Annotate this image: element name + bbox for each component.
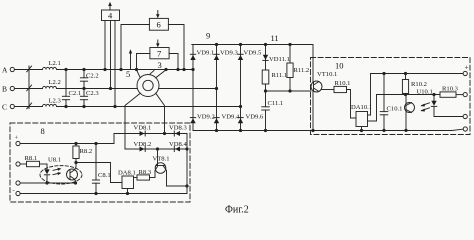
wire R10.1 to DA10.1 <box>347 90 357 119</box>
svg-text:A: A <box>2 66 8 75</box>
wire bridge top rail <box>192 44 313 46</box>
node A terminal <box>2 66 14 75</box>
svg-text:DA10.1: DA10.1 <box>351 104 372 111</box>
capacitor C2.2 <box>80 68 98 89</box>
svg-text:8: 8 <box>41 126 45 136</box>
wire node to VT10.1 base <box>266 90 312 92</box>
svg-text:C8.1: C8.1 <box>98 172 111 179</box>
svg-text:C2.1: C2.1 <box>69 90 82 97</box>
wire block4 to phase C <box>114 21 116 108</box>
wire R11.1 bottom node <box>264 84 266 107</box>
capacitor C2.1 <box>62 68 81 107</box>
input terminal 8d <box>16 191 187 195</box>
wire motor stub bottom-left <box>125 93 140 133</box>
wire mid node rail <box>377 93 441 95</box>
svg-text:R11.1: R11.1 <box>272 72 288 79</box>
svg-text:L2.2: L2.2 <box>49 79 61 86</box>
svg-text:U8.1: U8.1 <box>48 157 61 164</box>
diode VD9.5 <box>238 50 262 61</box>
svg-text:+: + <box>465 63 469 72</box>
input terminal 8b <box>16 162 27 166</box>
capacitor C10.1 <box>380 72 402 131</box>
wire DA10.1 bottom pin <box>360 127 362 132</box>
diode VD9.6 <box>238 114 264 124</box>
diode VD8.3 <box>169 125 187 137</box>
wire bridge leg 1 <box>192 45 194 131</box>
capacitor C2.3 <box>80 89 99 108</box>
diode VD9.2 <box>190 114 214 124</box>
output terminal 4 <box>463 127 467 131</box>
svg-text:5: 5 <box>126 69 130 79</box>
resistor R8.3 <box>134 169 155 180</box>
svg-text:VD9.1: VD9.1 <box>197 50 215 57</box>
svg-text:U10.1: U10.1 <box>417 89 433 96</box>
wire phase B input <box>14 88 42 90</box>
svg-text:9: 9 <box>206 31 210 41</box>
svg-text:R10.2: R10.2 <box>411 81 427 88</box>
wire block6 right to phase A <box>168 25 185 71</box>
svg-text:VD8.1: VD8.1 <box>134 125 152 132</box>
svg-text:L2.1: L2.1 <box>49 60 61 67</box>
wire phase C main <box>57 106 241 108</box>
capacitor C11.1 <box>262 100 284 132</box>
light arrows U8.1 <box>53 168 61 175</box>
wire bridge leg 3 <box>239 43 241 131</box>
svg-text:VD9.3: VD9.3 <box>220 50 238 57</box>
wire phototransistor collector <box>74 161 77 170</box>
wire VD8 top <box>125 132 187 134</box>
wire block7 left to phase A <box>135 54 150 71</box>
svg-text:R8.2: R8.2 <box>80 148 93 155</box>
output terminal 3 <box>463 114 467 118</box>
wire motor stub bottom-right <box>156 93 165 133</box>
resistor R8.2 <box>73 142 92 162</box>
LED U10.1 <box>431 95 436 117</box>
wire plus rail <box>371 73 464 75</box>
wire bottom rail <box>193 129 463 130</box>
svg-text:C10.1: C10.1 <box>387 106 403 113</box>
svg-text:Фиг.2: Фиг.2 <box>225 205 249 216</box>
sensor arrow node 5 <box>126 49 132 79</box>
resistor R11.2 <box>287 43 309 92</box>
optocoupler U10.1 phototransistor <box>405 89 433 132</box>
svg-text:11: 11 <box>271 33 279 43</box>
svg-text:C2.2: C2.2 <box>86 73 99 80</box>
svg-text:VD9.2: VD9.2 <box>197 114 215 121</box>
wire motor stub top-left <box>137 70 141 78</box>
wire riser to VD8 network <box>114 134 125 144</box>
svg-text:10: 10 <box>335 61 344 71</box>
resistor R10.2 <box>402 72 427 94</box>
wire LED cathode to terminal <box>434 116 463 118</box>
output terminal 2 <box>463 93 467 97</box>
IC DA10.1 <box>351 104 372 127</box>
svg-text:+: + <box>15 135 19 142</box>
junction dots bottom rail <box>312 129 314 131</box>
svg-text:VD8.4: VD8.4 <box>169 141 187 148</box>
inductor L2.2 <box>43 79 61 89</box>
diode VD8.1 <box>134 125 152 137</box>
wire phase C input <box>14 106 42 108</box>
arrow out of block 4 <box>108 2 112 10</box>
diode VD8.4 <box>169 141 187 152</box>
wire block4 to phase A <box>104 21 106 71</box>
block 4 <box>102 10 120 21</box>
svg-text:4: 4 <box>108 11 113 21</box>
svg-text:6: 6 <box>157 20 161 30</box>
wire VD8 left connector <box>124 134 126 150</box>
dashed box 10 <box>311 58 471 135</box>
inductor L2.3 <box>43 98 62 107</box>
block 6 <box>149 18 168 30</box>
node B terminal <box>2 85 14 94</box>
diode VD9.3 <box>214 50 239 61</box>
input terminal 8c <box>16 181 76 185</box>
wire VT10.1 emitter to rail <box>312 92 314 132</box>
capacitor C8.1 <box>92 142 110 194</box>
wire motor stub top-right <box>156 68 167 77</box>
optocoupler U8.1 dashed outline <box>40 166 82 184</box>
wire phase B motor to bridge <box>159 88 217 90</box>
input terminal 8a <box>16 141 114 145</box>
wire block6 left to phase A <box>120 25 150 71</box>
arrow into block 6 <box>156 11 160 19</box>
inductor L2.1 <box>43 60 61 70</box>
block 7 <box>150 48 169 59</box>
resistor R10.3 <box>440 86 463 98</box>
wire VD8 bottom <box>125 148 188 150</box>
wire phase A input <box>14 69 42 71</box>
diode VD11.1 <box>263 43 290 70</box>
svg-text:L2.3: L2.3 <box>49 98 62 105</box>
svg-text:VT8.1: VT8.1 <box>153 156 170 163</box>
svg-text:3: 3 <box>158 60 162 70</box>
svg-text:7: 7 <box>157 49 161 59</box>
wire phase B to motor <box>57 88 138 90</box>
diode VD9.4 <box>214 114 240 124</box>
svg-text:VD9.5: VD9.5 <box>244 50 262 57</box>
transistor VT8.1 <box>153 148 189 187</box>
wire VT10.1 to R10.1 <box>321 89 334 91</box>
resistor R11.1 <box>262 70 287 84</box>
transistor VT10.1 <box>311 71 337 92</box>
switch bar 3-pole <box>27 66 32 109</box>
wire phase A main <box>57 69 194 71</box>
wire collector node to DA8.1 <box>76 163 122 183</box>
output terminal plus <box>463 63 469 76</box>
svg-text:C: C <box>2 103 7 112</box>
svg-text:VD8.2: VD8.2 <box>134 141 152 148</box>
svg-text:C11.1: C11.1 <box>268 100 284 107</box>
resistor R10.1 <box>334 80 350 93</box>
wire top rail corner to VT10.1 collector <box>312 45 314 82</box>
svg-text:B: B <box>2 85 7 94</box>
wire DA10.1 second pin to node <box>368 95 377 122</box>
wire DA10.1 output to plus rail <box>368 74 371 116</box>
resistor R8.1 <box>25 155 48 167</box>
wire bridge leg 2 <box>215 43 217 131</box>
wire block4 to phase B <box>109 21 111 90</box>
diode VD9.1 <box>190 50 214 61</box>
svg-text:VD9.6: VD9.6 <box>246 114 264 121</box>
LED U8.1 <box>44 157 61 185</box>
svg-text:DA8.1: DA8.1 <box>118 170 136 177</box>
dashed box 8 <box>10 123 190 202</box>
svg-text:R11.2: R11.2 <box>294 67 310 74</box>
svg-text:VT10.1: VT10.1 <box>317 71 337 78</box>
IC DA8.1 <box>118 170 136 195</box>
svg-text:-: - <box>13 187 15 194</box>
svg-text:VD11.1: VD11.1 <box>269 56 290 63</box>
wire block7 right to phase A <box>169 54 179 71</box>
wire phototransistor emitter <box>74 179 76 184</box>
light arrows U10.1 <box>421 103 430 112</box>
arrow into block 7 <box>156 40 160 47</box>
node C terminal <box>2 103 14 112</box>
svg-text:VD8.3: VD8.3 <box>169 125 187 132</box>
svg-text:VD9.4: VD9.4 <box>222 114 240 121</box>
wire VD8 right connector down <box>186 134 188 194</box>
motor M 3 <box>137 60 162 97</box>
phototransistor U8.1 <box>67 169 78 180</box>
diode VD8.2 <box>134 141 152 152</box>
